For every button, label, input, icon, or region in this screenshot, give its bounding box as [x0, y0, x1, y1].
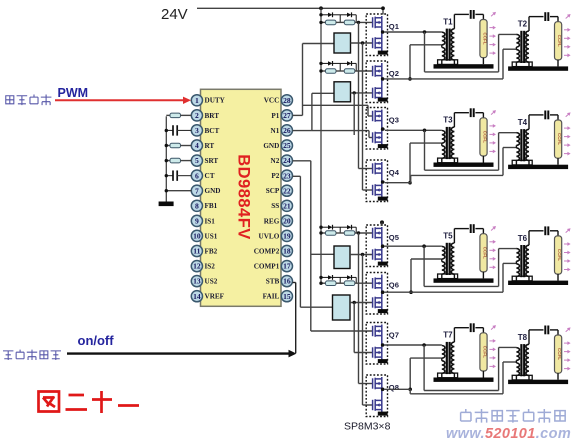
- light rays T3: [489, 109, 497, 154]
- svg-text:T2: T2: [518, 20, 528, 29]
- svg-text:VREF: VREF: [205, 293, 225, 301]
- svg-text:2: 2: [195, 111, 199, 120]
- ground bus bar T6: [508, 281, 568, 285]
- net P1 from pin 27: [293, 114, 303, 116]
- svg-text:CCFL: CCFL: [483, 131, 488, 143]
- svg-text:Q6: Q6: [389, 281, 399, 290]
- transistor pair Q1 (SP8M3) dashed package: [366, 14, 387, 56]
- wire T4 drive line: [411, 174, 503, 176]
- svg-text:BD9884FV: BD9884FV: [235, 154, 253, 240]
- wire T2 primary top feed: [498, 34, 500, 72]
- wire T1 return loop: [424, 32, 426, 72]
- light rays T2: [564, 13, 572, 58]
- wire T3 joint riser: [409, 143, 411, 183]
- wire driver U2 output to Q1 gate2: [351, 42, 373, 44]
- wire T8 primary top feed: [498, 347, 500, 390]
- lamp CCFL4: [555, 120, 563, 165]
- svg-text:T5: T5: [443, 232, 453, 241]
- light rays T1: [489, 10, 497, 55]
- svg-text:P1: P1: [271, 112, 279, 120]
- wire STB riser: [295, 283, 297, 354]
- junction 24V feed row Q2: [319, 62, 322, 65]
- svg-text:5: 5: [195, 156, 199, 165]
- svg-text:VCC: VCC: [264, 97, 280, 105]
- pin 6 CT: [191, 170, 202, 181]
- wire Q7 source to ground: [381, 357, 383, 360]
- junction Q2 gate2 tap: [353, 91, 356, 94]
- junction Q4 output: [381, 180, 385, 184]
- lamp CCFL3: [480, 118, 488, 163]
- capacitor C3 at pin 3: [166, 129, 173, 131]
- wire 24V drop to Q1 drain: [382, 8, 384, 14]
- svg-text:11: 11: [193, 247, 200, 256]
- wire Q3 source to ground: [381, 142, 383, 145]
- svg-text:28: 28: [283, 96, 291, 105]
- svg-text:17: 17: [283, 262, 291, 271]
- transistor pair Q6 (SP8M3) dashed package: [366, 273, 387, 315]
- ground Q5: [378, 262, 388, 266]
- wire Q8 internal drain/source rail: [381, 377, 383, 410]
- svg-text:1: 1: [195, 96, 199, 105]
- lamp CCFL7: [480, 333, 488, 378]
- capacitor ballast C T6: [545, 226, 558, 236]
- svg-text:20: 20: [283, 216, 291, 225]
- pin 23 P2: [281, 170, 292, 181]
- junction gate tap Q1: [357, 21, 360, 24]
- wire T6 primary top feed: [498, 249, 500, 287]
- label figure 21 图二十一: [39, 391, 140, 413]
- wire Q4 internal drain/source rail: [381, 162, 383, 195]
- svg-text:T7: T7: [443, 331, 453, 340]
- wire Q4 output: [385, 182, 411, 184]
- wire T1 primary joint lead: [410, 44, 442, 46]
- svg-text:SCP: SCP: [266, 187, 280, 195]
- wire Q8 output: [385, 388, 410, 390]
- pin 1 DUTY: [191, 95, 202, 106]
- svg-text:SRT: SRT: [205, 157, 219, 165]
- svg-text:4: 4: [195, 141, 199, 150]
- wire diode-resistor join Q6: [355, 277, 357, 283]
- resistor R4 at pin 4: [166, 145, 170, 147]
- transistor Q2 upper MOSFET: [373, 65, 382, 77]
- pin 20 REG: [281, 215, 292, 226]
- junction Q8 output node: [408, 388, 412, 392]
- wire gate distribution x362.5 to Q4 gate2: [362, 43, 364, 190]
- pin 16 STB: [281, 276, 292, 287]
- transformer T7: [438, 328, 469, 378]
- resistor R5 at pin 5: [166, 160, 170, 162]
- pin 15 FAIL: [281, 291, 292, 302]
- junction Q4 output node: [408, 181, 412, 185]
- pin 11 FB2: [191, 245, 202, 256]
- svg-text:N1: N1: [271, 127, 280, 135]
- svg-text:DUTY: DUTY: [205, 97, 226, 105]
- net N1 branch to Q3 gate2: [312, 130, 369, 132]
- transistor Q7 upper MOSFET: [373, 325, 382, 337]
- svg-text:T8: T8: [518, 333, 528, 342]
- svg-text:CCFL: CCFL: [557, 133, 562, 145]
- svg-text:T1: T1: [443, 17, 453, 26]
- ground bus bar T1: [434, 64, 494, 68]
- svg-text:P2: P2: [271, 172, 279, 180]
- junction bias bus pin 6: [165, 174, 168, 177]
- transistor Q5 upper MOSFET: [373, 227, 382, 239]
- svg-text:16: 16: [283, 277, 291, 286]
- svg-text:Q3: Q3: [389, 116, 399, 125]
- diode row Q1 driver: [321, 14, 326, 16]
- wire T4 primary top feed: [498, 133, 500, 171]
- transistor Q3 upper MOSFET: [373, 110, 382, 122]
- gate driver block U3: [334, 82, 351, 102]
- svg-text:COMP1: COMP1: [254, 262, 280, 270]
- net P1 branch to Q3 gate1: [303, 104, 369, 106]
- pin 5 SRT: [191, 155, 202, 166]
- light rays T7: [489, 324, 497, 369]
- wire Q8 source to ground: [381, 410, 383, 413]
- svg-text:T4: T4: [518, 118, 528, 127]
- pin 9 IS1: [191, 215, 202, 226]
- transistor Q6 upper MOSFET: [373, 277, 382, 289]
- net N1 from pin 26: [293, 130, 312, 132]
- wire gate distribution x354.2 to Q7 gate2: [353, 303, 355, 353]
- junction Q7 output: [381, 343, 385, 347]
- wire T2 joint riser right: [502, 49, 504, 79]
- junction 24V feed row Q1: [319, 13, 322, 16]
- junction Q5 output: [381, 244, 385, 248]
- wire Q3 internal drain/source rail: [381, 110, 383, 143]
- wire T5 return loop: [423, 246, 425, 286]
- svg-text:Q7: Q7: [389, 331, 399, 340]
- transformer T3: [438, 113, 469, 163]
- junction 24V feed row Q5: [319, 226, 322, 229]
- junction T5 drive node: [422, 244, 426, 248]
- transistor pair Q7 (SP8M3) dashed package: [366, 323, 387, 365]
- ground bus bar T4: [508, 165, 568, 169]
- pin 27 P1: [281, 110, 292, 121]
- svg-text:14: 14: [193, 292, 201, 301]
- wire T1 joint riser: [409, 45, 411, 79]
- junction gate tap Q5: [357, 231, 360, 234]
- svg-text:CCFL: CCFL: [557, 249, 562, 261]
- wire diode-resistor join Q2: [355, 63, 357, 71]
- junction on 24V rail at feed: [319, 6, 323, 10]
- transistor Q1 upper MOSFET: [373, 17, 382, 29]
- pin 13 US2: [191, 276, 202, 287]
- pin 7 GND: [191, 185, 202, 196]
- svg-text:13: 13: [193, 277, 201, 286]
- svg-text:N2: N2: [271, 157, 280, 165]
- wire Q2 internal drain/source rail: [381, 63, 383, 98]
- capacitor C6 at pin 6: [166, 175, 173, 177]
- svg-text:GND: GND: [263, 142, 279, 150]
- svg-text:Q8: Q8: [389, 383, 399, 392]
- junction Q6 output node: [409, 290, 413, 294]
- gate driver block U4: [334, 246, 350, 269]
- svg-text:19: 19: [283, 232, 291, 241]
- transistor Q6 lower MOSFET: [373, 297, 382, 309]
- transistor pair Q2 (SP8M3) dashed package: [366, 61, 387, 103]
- ground Q8: [378, 412, 388, 416]
- svg-text:RT: RT: [205, 142, 215, 150]
- wire Q6 internal drain/source rail: [381, 275, 383, 308]
- pin 24 N2: [281, 155, 292, 166]
- diode row Q5 driver: [321, 226, 326, 228]
- svg-text:6: 6: [195, 171, 199, 180]
- ground bus bar T8: [508, 380, 568, 384]
- net N2 branch to Q7 gate1: [311, 330, 373, 332]
- wire T8 drive line: [410, 393, 503, 395]
- pin 25 GND: [281, 140, 292, 151]
- transistor pair Q5 (SP8M3) dashed package: [366, 225, 387, 267]
- junction Q5 gate2 tap: [361, 253, 364, 256]
- capacitor ballast C T2: [545, 12, 558, 22]
- svg-text:CCFL: CCFL: [483, 346, 488, 358]
- wire Q1 source to ground: [381, 48, 383, 52]
- svg-text:GND: GND: [205, 187, 221, 195]
- capacitor ballast C T7: [471, 323, 484, 333]
- wire Q4 source to ground: [381, 195, 383, 198]
- wire gate distribution x354.2 top group: [353, 93, 355, 135]
- svg-text:T6: T6: [518, 234, 528, 243]
- net N2 from pin 24: [293, 160, 311, 162]
- junction 24V feed row Q6: [319, 276, 322, 279]
- junction bias bus pin 7: [165, 189, 168, 192]
- ground Q2: [378, 98, 388, 102]
- wire on/off line to STB: [67, 352, 290, 354]
- svg-text:STB: STB: [266, 278, 280, 286]
- svg-text:10: 10: [193, 232, 201, 241]
- wire diode-resistor join Q5: [355, 227, 357, 233]
- ground Q4: [378, 197, 388, 201]
- ground bus bar T3: [434, 163, 494, 167]
- svg-text:18: 18: [283, 247, 291, 256]
- transformer T5: [438, 229, 469, 279]
- wire T7 primary joint lead: [410, 357, 442, 359]
- capacitor ballast C T4: [545, 111, 558, 121]
- capacitor ballast C T1: [471, 10, 484, 20]
- ground Q7: [378, 359, 388, 363]
- junction bias bus pin 4: [165, 144, 168, 147]
- junction Q8 output: [381, 388, 385, 392]
- resistor row Q2 gate1 line: [321, 70, 326, 72]
- pin 2 BRT: [191, 110, 202, 121]
- svg-text:21: 21: [283, 201, 291, 210]
- svg-text:CCFL: CCFL: [557, 35, 562, 47]
- wire 24V vertical feed bus: [320, 8, 322, 283]
- svg-text:CCFL: CCFL: [483, 247, 488, 259]
- svg-text:UVLO: UVLO: [259, 232, 280, 240]
- transistor Q4 upper MOSFET: [373, 163, 382, 175]
- wire Q2 output to T2 secondary drive: [385, 78, 503, 80]
- junction bias bus pin 3: [165, 129, 168, 132]
- wire Q6 output to T6 secondary drive: [385, 291, 503, 293]
- junction on 24V rail at Q1: [381, 6, 385, 10]
- svg-text:BCT: BCT: [205, 127, 220, 135]
- svg-text:27: 27: [283, 111, 291, 120]
- junction Q6 gate2 tap: [353, 301, 356, 304]
- transistor Q5 lower MOSFET: [373, 249, 382, 261]
- svg-text:26: 26: [283, 126, 291, 135]
- svg-text:24: 24: [283, 156, 291, 165]
- svg-text:CCFL: CCFL: [483, 32, 488, 44]
- svg-text:PWM: PWM: [58, 86, 89, 100]
- junction Q1 gate2 tap: [361, 41, 364, 44]
- transistor pair Q3 (SP8M3) dashed package: [366, 108, 387, 150]
- resistor row Q6 gate1 line: [321, 282, 326, 284]
- resistor row Q1 gate1 line: [321, 21, 326, 23]
- junction T7 drive node: [422, 343, 426, 347]
- wire T3 return loop: [424, 130, 426, 170]
- pin 22 SCP: [281, 185, 292, 196]
- diode row Q2 driver: [321, 62, 326, 64]
- junction Q5 drain feed: [380, 220, 384, 224]
- wire PWM red arrow to pin 1 DUTY: [55, 99, 184, 101]
- pin 28 VCC: [281, 95, 292, 106]
- transistor pair Q8 (SP8M3) dashed package: [366, 375, 387, 417]
- gate driver block U2: [334, 33, 351, 53]
- svg-text:CT: CT: [205, 172, 215, 180]
- svg-text:8: 8: [195, 201, 199, 210]
- svg-text:BRT: BRT: [205, 112, 220, 120]
- lamp CCFL1: [480, 20, 488, 65]
- pin 26 N1: [281, 125, 292, 136]
- svg-text:3: 3: [195, 126, 199, 135]
- svg-text:25: 25: [283, 141, 291, 150]
- wire gate distribution x358.5 to Q4 gate1: [358, 22, 360, 168]
- capacitor ballast C T3: [471, 108, 484, 118]
- svg-text:US2: US2: [205, 278, 218, 286]
- gate driver block U5: [333, 295, 351, 320]
- wire Q5 source to ground: [381, 259, 383, 262]
- node left bias bus: [165, 116, 167, 201]
- wire Q6 source to ground: [381, 307, 383, 310]
- transistor Q7 lower MOSFET: [373, 347, 382, 359]
- diode row Q6 driver: [321, 276, 326, 278]
- wire T5 primary joint lead: [411, 258, 442, 260]
- transistor Q1 lower MOSFET: [373, 37, 382, 49]
- capacitor ballast C T8: [545, 326, 558, 336]
- ground bus bar T7: [434, 378, 494, 382]
- light rays T6: [564, 227, 572, 272]
- label backlight start 背光灯启动: [3, 351, 13, 360]
- light rays T5: [489, 225, 497, 270]
- ground Q3: [378, 144, 388, 148]
- svg-text:COMP2: COMP2: [254, 247, 280, 255]
- svg-text:FAIL: FAIL: [263, 293, 280, 301]
- junction bias bus pin 5: [165, 159, 168, 162]
- ground Q6: [378, 309, 388, 313]
- pin 21 SS: [281, 200, 292, 211]
- svg-text:Q1: Q1: [389, 22, 400, 31]
- wire T7 return loop: [423, 345, 425, 391]
- svg-text:IS2: IS2: [205, 262, 216, 270]
- pin 4 RT: [191, 140, 202, 151]
- transistor Q2 lower MOSFET: [373, 87, 382, 99]
- pin 19 UVLO: [281, 230, 292, 241]
- ground bus bar T2: [508, 66, 568, 70]
- svg-text:Q5: Q5: [389, 233, 400, 242]
- pin 17 COMP1: [281, 261, 292, 272]
- wire T5 joint riser: [410, 259, 412, 292]
- svg-text:15: 15: [283, 292, 291, 301]
- junction Q6 output: [381, 290, 385, 294]
- wire diode-resistor join Q1: [355, 15, 357, 23]
- transistor Q8 lower MOSFET: [373, 399, 382, 411]
- resistor R2 at pin 2: [166, 114, 170, 116]
- junction Q3 output: [381, 127, 385, 131]
- transformer T1: [438, 14, 469, 64]
- wire driver U5 output to Q6 gate2: [350, 302, 372, 304]
- svg-text:12: 12: [193, 262, 201, 271]
- svg-text:FB2: FB2: [205, 247, 218, 255]
- svg-text:Q4: Q4: [389, 168, 400, 177]
- net P2 from pin 23: [293, 175, 301, 177]
- wire 24V rail: [197, 7, 383, 9]
- wire Q3 output to T3 primary: [385, 129, 442, 131]
- wire Q5 output to T5 primary: [385, 245, 442, 247]
- capacitor ballast C T5: [471, 224, 484, 234]
- wire T6 joint riser right: [502, 263, 504, 292]
- transformer T2: [512, 17, 543, 67]
- wire Q1 internal drain/source rail: [381, 16, 383, 48]
- transistor Q8 upper MOSFET: [373, 378, 382, 390]
- lamp CCFL6: [555, 236, 563, 281]
- wire Q7 output to T7 primary: [385, 344, 442, 346]
- ground Q1: [378, 51, 388, 55]
- wire Q2 source to ground: [381, 97, 383, 100]
- svg-text:22: 22: [283, 186, 291, 195]
- svg-text:www.520101.com: www.520101.com: [446, 426, 571, 440]
- svg-text:on/off: on/off: [78, 333, 115, 348]
- label brightness control 亮度控制: [6, 96, 14, 104]
- svg-text:7: 7: [195, 186, 199, 195]
- lamp CCFL2: [555, 22, 563, 67]
- transistor Q3 lower MOSFET: [373, 132, 382, 144]
- wire gate distribution x358.5 to Q8 gate1: [358, 233, 360, 384]
- ground bus bar T5: [434, 278, 494, 282]
- svg-text:CCFL: CCFL: [557, 348, 562, 360]
- transformer T6: [512, 231, 543, 281]
- svg-text:US1: US1: [205, 232, 218, 240]
- pin 12 IS2: [191, 261, 202, 272]
- transformer T4: [512, 115, 543, 165]
- wire driver U3 output to Q2 gate2: [351, 92, 373, 94]
- svg-text:IS1: IS1: [205, 217, 216, 225]
- wire T3 primary joint lead: [410, 142, 442, 144]
- junction Q1 output: [381, 30, 385, 34]
- junction Q2 output node: [408, 77, 412, 81]
- svg-text:REG: REG: [264, 217, 280, 225]
- pin 10 US1: [191, 230, 202, 241]
- pin 8 FB1: [191, 200, 202, 211]
- wire pin 7 GND to bus: [166, 190, 191, 192]
- svg-text:Q2: Q2: [389, 69, 399, 78]
- lamp CCFL8: [555, 335, 563, 380]
- pin 14 VREF: [191, 291, 202, 302]
- transformer T8: [512, 330, 543, 380]
- junction T3 drive node: [423, 129, 427, 133]
- svg-text:SS: SS: [271, 202, 279, 210]
- svg-text:24V: 24V: [161, 6, 188, 23]
- op-amp U1 BD9884FV body: [201, 89, 282, 306]
- light rays T4: [564, 111, 572, 156]
- svg-text:FB1: FB1: [205, 202, 218, 210]
- watermark 家电维修资料网: [461, 409, 471, 421]
- wire gate distribution x362.5 to Q8 gate2: [362, 255, 364, 406]
- svg-text:23: 23: [283, 171, 291, 180]
- wire Q7 internal drain/source rail: [381, 325, 383, 358]
- wire T7 joint riser: [409, 358, 411, 389]
